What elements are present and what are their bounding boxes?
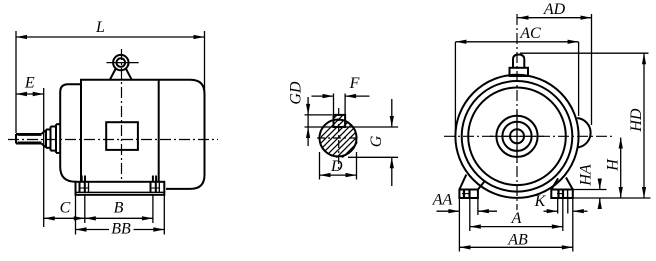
dimension AB <box>572 199 574 252</box>
svg-text:AA: AA <box>432 192 453 209</box>
wire <box>444 135 614 137</box>
svg-text:H: H <box>605 158 622 172</box>
node foot-side <box>76 182 165 195</box>
node keyway <box>334 115 346 127</box>
dimension HD <box>520 52 649 54</box>
dimension K <box>557 199 559 214</box>
wire <box>338 108 340 171</box>
node terminal-lug <box>577 118 590 147</box>
node foot-front-left <box>459 190 478 199</box>
dimension GD <box>305 114 333 116</box>
dimension L <box>15 31 17 133</box>
node eye-bolt-side <box>113 55 128 70</box>
dimension AD <box>591 14 593 125</box>
node foot-front-right <box>551 190 573 199</box>
svg-text:GD: GD <box>288 81 305 105</box>
node terminal-box <box>106 122 138 150</box>
node end-bell <box>60 84 81 182</box>
dimension H <box>620 138 622 199</box>
dimension AC <box>454 42 456 134</box>
node ground-line <box>573 197 651 199</box>
node frame-circles <box>455 75 578 198</box>
svg-text:E: E <box>24 75 35 92</box>
dimension F <box>333 94 335 115</box>
svg-text:C: C <box>60 200 71 217</box>
dimension D <box>319 152 321 180</box>
node motor-body <box>81 80 205 189</box>
svg-text:AB: AB <box>507 231 528 248</box>
wire <box>516 14 518 210</box>
svg-text:D: D <box>330 158 343 175</box>
node body-seam <box>158 80 160 182</box>
svg-text:G: G <box>368 135 385 147</box>
node shaft-side <box>16 133 42 135</box>
node eye-bolt-front <box>513 55 524 69</box>
svg-text:HA: HA <box>578 164 595 187</box>
dimension HA <box>574 189 607 191</box>
dimension BB <box>75 195 77 234</box>
svg-text:AC: AC <box>519 25 541 42</box>
dimension G <box>348 156 398 158</box>
svg-text:B: B <box>114 200 124 217</box>
wire <box>8 139 218 141</box>
wire <box>121 49 123 181</box>
node shaft-collar <box>45 130 47 148</box>
svg-text:AD: AD <box>543 1 566 18</box>
svg-text:HD: HD <box>628 108 645 133</box>
svg-text:BB: BB <box>111 220 131 237</box>
svg-text:A: A <box>511 210 522 227</box>
dimension E <box>43 88 45 227</box>
dimension AA <box>458 199 460 252</box>
dimension B <box>152 195 154 223</box>
svg-text:F: F <box>349 75 360 92</box>
svg-text:K: K <box>534 193 547 210</box>
node bearing-boss <box>496 116 537 157</box>
svg-text:L: L <box>95 19 105 36</box>
dimension C <box>84 195 86 223</box>
dimension A <box>469 199 471 232</box>
